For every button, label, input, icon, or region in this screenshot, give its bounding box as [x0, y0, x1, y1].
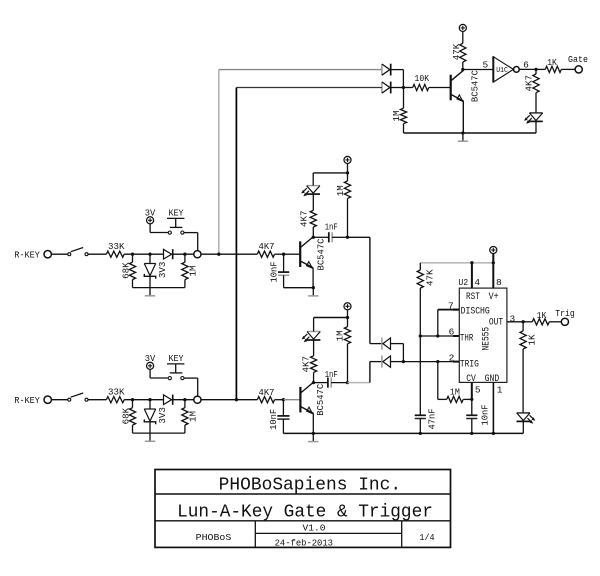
svg-text:Lun-A-Key Gate & Trigger: Lun-A-Key Gate & Trigger — [177, 501, 433, 522]
label 33K (keyer 2) — [108, 386, 125, 397]
svg-text:4K7: 4K7 — [524, 75, 535, 92]
svg-text:NE555: NE555 — [482, 327, 493, 351]
pin 1 stub (GND) — [492, 382, 494, 433]
ground (keyer 1) — [145, 288, 155, 296]
svg-text:4K7: 4K7 — [299, 210, 310, 227]
wire pad to switch (keyer 1) — [51, 253, 67, 255]
title block frame — [155, 470, 451, 548]
label GND — [485, 374, 500, 385]
label 1M (stage2) — [335, 330, 346, 341]
pin 8 label — [496, 277, 502, 288]
title date text — [275, 539, 333, 549]
svg-text:1M: 1M — [188, 411, 199, 422]
node stage2 output junction — [346, 381, 349, 384]
svg-text:68K: 68K — [120, 407, 131, 424]
label 47nF — [426, 409, 437, 430]
svg-text:R-KEY: R-KEY — [14, 395, 40, 406]
svg-text:1K: 1K — [527, 334, 538, 345]
pushbutton KEY (keyer 2) — [167, 364, 184, 380]
resistor 1M (CV filter) — [447, 396, 472, 402]
wire V+ rail 555 — [420, 262, 493, 264]
label 1K (out LED) — [527, 334, 538, 345]
resistor 4K7 (stage2 base) — [257, 397, 283, 403]
node 68K tap (keyer 2) — [131, 398, 134, 401]
svg-text:7: 7 — [448, 300, 454, 311]
label 3V (keyer 2) — [145, 353, 156, 364]
resistor 33K (keyer 1) — [106, 251, 124, 257]
svg-text:4K7: 4K7 — [259, 241, 275, 252]
IC U2 NE555 box — [459, 288, 507, 382]
wire bus key1 horizontal — [219, 69, 382, 71]
wire bottom (keyer 2) — [133, 432, 185, 434]
svg-text:1nF: 1nF — [325, 221, 338, 232]
pin 5 stub (CV) — [471, 382, 473, 399]
label 1M (gate) — [391, 111, 402, 122]
label 1nF (stage1) — [325, 221, 338, 232]
label R-KEY (keyer 1) — [14, 249, 40, 260]
node pin4 junction — [470, 261, 473, 264]
wire keyer1 output to stage1 — [201, 253, 257, 255]
svg-text:PHOBoSapiens Inc.: PHOBoSapiens Inc. — [219, 475, 402, 496]
wire U1C output — [519, 68, 536, 70]
label 1M (keyer 1) — [188, 266, 199, 277]
label 10nF (CV) — [480, 405, 491, 426]
svg-text:5: 5 — [483, 59, 489, 70]
svg-text:2: 2 — [449, 353, 455, 364]
svg-text:U2: U2 — [458, 277, 468, 288]
diode series (keyer 2) — [164, 395, 173, 405]
transistor Q3 BC547C — [451, 70, 464, 134]
power +3V rail (gate stage) — [459, 24, 466, 43]
wire to 1K — [536, 68, 545, 70]
ground (stage2) — [308, 433, 318, 441]
node keyer output (keyer 1) — [194, 251, 201, 258]
label 10nF (stage1) — [269, 262, 280, 283]
svg-text:33K: 33K — [108, 241, 125, 252]
label BC547C (Q2) — [315, 383, 326, 415]
wire KEY to node (keyer 1) — [184, 233, 198, 251]
diode series (keyer 1) — [164, 249, 173, 259]
wire +3V rail (stage2) — [314, 317, 348, 319]
wire 1K to Gate pad — [561, 68, 575, 70]
node trig OR junction — [402, 360, 405, 363]
transistor Q2 BC547C — [300, 382, 313, 433]
pin 3 wire (OUT) — [507, 321, 523, 323]
node zener tap (keyer 1) — [148, 253, 151, 256]
svg-text:GND: GND — [485, 374, 500, 385]
label 47K (555) — [425, 269, 436, 286]
node GND rail junction — [492, 432, 495, 435]
resistor 68K (keyer 1) — [129, 254, 135, 287]
switch S (keyer 2) — [68, 393, 88, 401]
wire THR net — [420, 335, 459, 337]
label V+ — [489, 292, 499, 303]
wire stage1 to diode D3 — [370, 343, 382, 345]
wire ground rail (bottom) — [283, 432, 523, 434]
LED stage2 — [302, 332, 321, 343]
wire base junction to Q1 — [284, 253, 300, 255]
ground (keyer 2) — [145, 433, 155, 441]
wire 10nF to emitter — [284, 287, 314, 289]
label 4K7 (stage2 LED) — [300, 356, 311, 373]
svg-text:4K7: 4K7 — [259, 387, 275, 398]
capacitor 47nF (timing) — [415, 336, 426, 433]
pin 5 label — [475, 385, 481, 396]
wire bottom (keyer 1) — [133, 287, 185, 289]
wire stage2 output up — [369, 362, 371, 383]
node OUT junction — [521, 320, 524, 323]
wire junction down to 1M — [403, 88, 405, 109]
node collector Q3 / junction — [461, 68, 464, 71]
switch S (keyer 1) — [68, 248, 88, 256]
svg-text:KEY: KEY — [169, 208, 184, 219]
capacitor 10nF (CV) — [466, 399, 477, 433]
svg-text:1nF: 1nF — [325, 369, 338, 380]
op-amp U1C inverter triangle — [493, 56, 519, 82]
svg-text:10nF: 10nF — [268, 409, 279, 430]
wire gate node down — [535, 69, 537, 74]
label 10nF (stage2) — [268, 409, 279, 430]
label 3V3 (keyer 2) — [157, 407, 168, 424]
svg-text:8: 8 — [496, 277, 502, 288]
power 3V supply (keyer 1) — [147, 217, 154, 233]
node TRIG tap — [436, 360, 439, 363]
pin 4 stub — [471, 263, 473, 288]
diode D3 (trig OR 1) — [382, 338, 391, 350]
resistor 1M (stage1 pull-up) — [344, 173, 350, 237]
svg-text:3: 3 — [509, 313, 515, 324]
node stage1 emitter junction — [312, 286, 315, 289]
wire bus key2 horizontal — [236, 87, 382, 89]
pushbutton KEY (keyer 1) — [167, 218, 184, 234]
svg-text:RST: RST — [466, 292, 480, 303]
wire 3V to KEY (keyer 1) — [150, 232, 168, 234]
svg-text:1K: 1K — [547, 57, 557, 68]
svg-text:THR: THR — [460, 334, 473, 345]
LED trig indicator — [517, 413, 536, 434]
svg-text:1M: 1M — [188, 266, 199, 277]
wire collector to inverter input — [463, 69, 494, 71]
label U2 — [458, 277, 468, 288]
title divider col2 — [401, 521, 403, 548]
wire stage1 output right — [348, 236, 370, 238]
label THR — [460, 334, 473, 345]
node stage1 output junction — [346, 236, 349, 239]
wire DISCHG net — [438, 310, 460, 336]
title company text — [219, 475, 402, 496]
wire gate ground rail — [404, 132, 536, 134]
label R-KEY (keyer 2) — [14, 395, 40, 406]
svg-text:Gate: Gate — [568, 54, 588, 65]
node stage1 collector junction — [312, 236, 315, 239]
node 1M tap (keyer 2) — [183, 398, 186, 401]
title project text — [177, 501, 433, 522]
label RST — [466, 292, 480, 303]
resistor 47K (gate collector pull-up) — [460, 43, 466, 69]
svg-text:47K: 47K — [425, 269, 436, 286]
wire KEY to node (keyer 2) — [184, 378, 198, 396]
node rail junction (stage2) — [346, 316, 349, 319]
power +3V (stage2) — [344, 303, 351, 318]
svg-text:5: 5 — [475, 385, 481, 396]
node keyer output (keyer 2) — [194, 396, 201, 403]
svg-text:PHOBoS: PHOBoS — [196, 532, 232, 543]
wire pad to switch (keyer 2) — [51, 399, 67, 401]
resistor 68K (keyer 2) — [129, 400, 135, 433]
svg-text:47nF: 47nF — [426, 409, 437, 430]
label KEY (keyer 2) — [169, 353, 184, 364]
wire LED to rail (stage2) — [313, 318, 315, 332]
wire stage2 to diode D4 — [370, 361, 382, 363]
node stage2 emitter junction — [312, 432, 315, 435]
wire diode D2 out — [391, 87, 404, 89]
svg-text:BC547C: BC547C — [315, 383, 326, 415]
ground (gate stage) — [458, 133, 468, 141]
wire bus key1 vertical — [218, 70, 220, 255]
resistor 1K (out LED) — [520, 322, 526, 413]
pin 3 label — [509, 313, 515, 324]
label 1K — [547, 57, 557, 68]
node R-KEY input pad (keyer 1) — [44, 251, 51, 258]
resistor 4K7 (stage1 LED) — [310, 194, 316, 237]
label 33K (keyer 1) — [108, 241, 125, 252]
svg-text:47K: 47K — [451, 43, 462, 60]
label 1K (trig series) — [537, 310, 547, 321]
svg-text:4: 4 — [474, 277, 480, 288]
resistor 4K7 (gate LED) — [533, 74, 539, 113]
svg-text:V1.0: V1.0 — [303, 524, 326, 534]
svg-text:U1C: U1C — [496, 67, 508, 75]
resistor 10K (gate base) — [413, 84, 429, 90]
label 4K7 (stage1 LED) — [299, 210, 310, 227]
node 47nF rail junction — [419, 432, 422, 435]
svg-text:1: 1 — [497, 385, 503, 396]
node R-KEY input pad (keyer 2) — [44, 396, 51, 403]
wire keyer2 output to stage2 — [201, 399, 257, 401]
label NE555 — [482, 327, 493, 351]
label 68K (keyer 2) — [120, 407, 131, 424]
svg-text:33K: 33K — [108, 386, 125, 397]
wire diode junction to 10K — [403, 87, 412, 89]
node pin8 junction — [492, 261, 495, 264]
svg-text:24-feb-2013: 24-feb-2013 — [275, 539, 333, 549]
resistor 1M (keyer 1) — [182, 254, 188, 287]
wire diode to node (keyer 2) — [173, 399, 194, 401]
node gate output junction — [534, 68, 537, 71]
wire base junction to Q2 — [283, 399, 299, 401]
label DISCHG — [461, 307, 490, 318]
diode D4 (trig OR 2) — [382, 356, 391, 368]
svg-text:68K: 68K — [120, 262, 131, 279]
node bus key1 tap — [217, 253, 220, 256]
wire TRIG net — [403, 361, 459, 363]
resistor 47K (555 timing) — [417, 263, 423, 336]
capacitor 1nF (stage2) — [314, 378, 348, 388]
wire LED to rail (stage1) — [312, 173, 314, 186]
svg-text:BC547C: BC547C — [316, 238, 327, 270]
wire OUT to 1K — [523, 321, 532, 323]
pin 1 label — [497, 385, 503, 396]
resistor 4K7 (stage2 LED) — [311, 340, 317, 383]
pin 4 label — [474, 277, 480, 288]
title divider row1 — [155, 493, 451, 495]
capacitor 1nF (stage1) — [313, 232, 347, 242]
svg-text:3V3: 3V3 — [157, 407, 168, 424]
diode D2 (key 2 OR) — [382, 82, 391, 94]
wire diode to node (keyer 1) — [173, 253, 194, 255]
resistor 1M (gate base pull-down) — [400, 108, 406, 133]
wire stage1 output down — [369, 237, 371, 343]
power 3V supply (keyer 2) — [147, 362, 154, 378]
node THR junction — [419, 334, 422, 337]
resistor 4K7 (stage1 base) — [257, 251, 283, 257]
wire switch to 33K (keyer 2) — [88, 399, 106, 401]
svg-text:1K: 1K — [537, 310, 547, 321]
svg-text:10K: 10K — [415, 73, 430, 84]
zener diode 3V3 (keyer 2) — [144, 400, 155, 433]
node zener tap (keyer 2) — [148, 398, 151, 401]
svg-text:Trig: Trig — [555, 308, 575, 319]
label Gate — [568, 54, 588, 65]
node stage2 collector junction — [312, 381, 315, 384]
svg-text:1M: 1M — [335, 185, 346, 196]
title version text — [303, 524, 326, 534]
node THR-DISCHG tie — [436, 334, 439, 337]
svg-text:3V3: 3V3 — [157, 262, 168, 279]
label 68K (keyer 1) — [120, 262, 131, 279]
wire D3 to trig node — [391, 344, 404, 362]
node CV junction — [470, 398, 473, 401]
pin 2 label — [449, 353, 455, 364]
capacitor 10nF (stage1) — [278, 254, 289, 288]
label 4K7 (stage1 base) — [259, 241, 275, 252]
label 3V (keyer 1) — [145, 208, 156, 219]
title sheet text — [419, 533, 434, 543]
resistor 1M (stage2 pull-up) — [344, 318, 350, 383]
resistor 33K (keyer 2) — [106, 397, 124, 403]
node rail junction (stage1) — [346, 171, 349, 174]
zener diode 3V3 (keyer 1) — [144, 254, 155, 287]
svg-text:1M: 1M — [391, 111, 402, 122]
wire 33K to diode (keyer 2) — [124, 399, 163, 401]
label Trig — [555, 308, 575, 319]
svg-text:4K7: 4K7 — [300, 356, 311, 373]
node 68K tap (keyer 1) — [131, 253, 134, 256]
power +3V (stage1) — [344, 156, 351, 173]
wire switch to 33K (keyer 1) — [88, 253, 106, 255]
label 1M (keyer 2) — [188, 411, 199, 422]
wire bus key2 vertical — [235, 88, 237, 400]
node Gate output pad — [575, 66, 582, 73]
label 10K — [415, 73, 430, 84]
title author text — [196, 532, 232, 543]
LED gate indicator — [524, 113, 543, 133]
svg-text:KEY: KEY — [169, 353, 184, 364]
title divider mid split — [255, 532, 401, 534]
label TRIG — [460, 360, 479, 371]
svg-text:1M: 1M — [335, 330, 346, 341]
resistor 1M (keyer 2) — [182, 400, 188, 433]
label BC547C (Q1) — [316, 238, 327, 270]
label 4K7 (stage2 base) — [259, 387, 275, 398]
svg-text:V+: V+ — [489, 292, 499, 303]
node Trig output pad — [561, 318, 568, 325]
transistor Q1 BC547C — [300, 237, 313, 288]
title divider col1 — [254, 521, 256, 548]
pin 5 label (U1C input) — [483, 59, 489, 70]
label KEY (keyer 1) — [169, 208, 184, 219]
title divider row2 — [155, 520, 451, 522]
wire +3V rail (stage1) — [313, 172, 347, 174]
label 47K — [451, 43, 462, 60]
wire stage2 output right — [348, 382, 370, 384]
svg-text:DISCHG: DISCHG — [461, 307, 490, 318]
pin 8 stub — [492, 253, 494, 288]
node diode-OR junction — [402, 86, 405, 89]
node emitter Q3 / rail junction — [461, 131, 464, 134]
svg-text:6: 6 — [449, 326, 455, 337]
label 1M (stage1) — [335, 185, 346, 196]
svg-text:TRIG: TRIG — [460, 360, 479, 371]
node stage1 base junction — [282, 253, 285, 256]
svg-text:1/4: 1/4 — [419, 533, 434, 543]
LED stage1 — [301, 186, 320, 197]
wire 33K to diode (keyer 1) — [124, 253, 163, 255]
svg-text:10nF: 10nF — [269, 262, 280, 283]
svg-text:R-KEY: R-KEY — [14, 249, 40, 260]
label CV — [466, 374, 476, 385]
label 1nF (stage2) — [325, 369, 338, 380]
label BC547C (Q3) — [470, 70, 481, 102]
node 1M tap (keyer 1) — [183, 253, 186, 256]
resistor 1K (gate series) — [545, 66, 561, 72]
wire TRIG tap down to 1M — [438, 362, 447, 400]
node 10nF rail junction — [470, 432, 473, 435]
svg-text:1M: 1M — [450, 387, 460, 398]
svg-text:10nF: 10nF — [480, 405, 491, 426]
wire D4 to trig node — [391, 361, 404, 363]
label 3V3 (keyer 1) — [157, 262, 168, 279]
node bus key2 tap — [235, 398, 238, 401]
pin 7 label — [448, 300, 454, 311]
power +3V (555) — [490, 246, 497, 253]
diode D1 (key 1 OR) — [382, 64, 391, 76]
label OUT — [489, 318, 503, 329]
label 4K7 (gate LED) — [524, 75, 535, 92]
resistor 1K (trig series) — [532, 319, 561, 325]
label 1M (CV) — [450, 387, 460, 398]
pin 6 label — [449, 326, 455, 337]
svg-text:BC547C: BC547C — [470, 70, 481, 102]
pin 6 label (U1C output) — [523, 59, 529, 70]
wire 10K to base — [429, 87, 450, 89]
wire diode D1 to junction — [391, 70, 404, 88]
node stage2 base junction — [282, 398, 285, 401]
ground (stage1) — [308, 288, 318, 296]
wire 3V to KEY (keyer 2) — [150, 377, 168, 379]
capacitor 10nF (stage2) — [277, 400, 289, 434]
